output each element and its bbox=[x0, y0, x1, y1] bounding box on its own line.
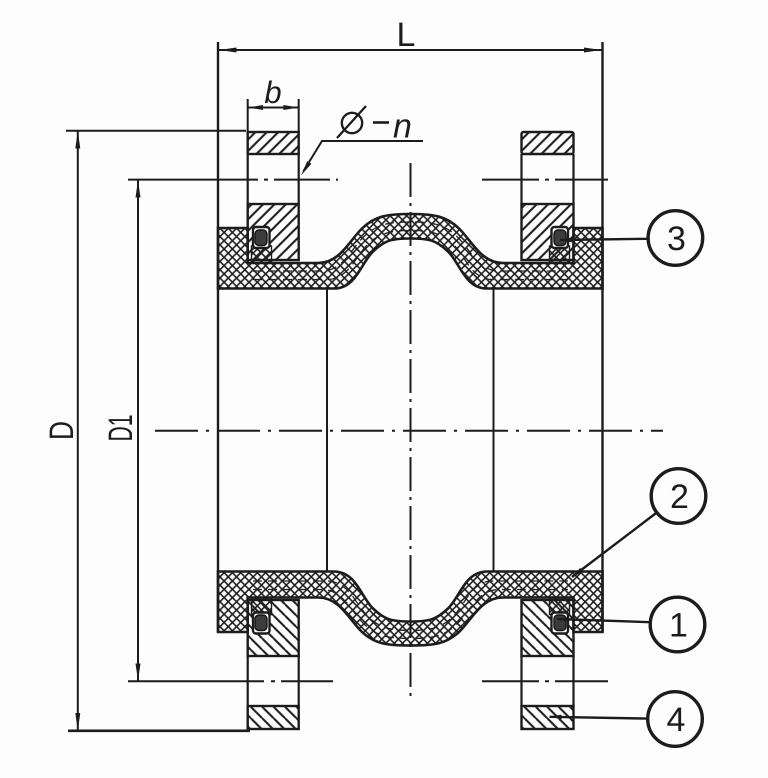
bore edge line right bbox=[493, 289, 495, 572]
svg-text:1: 1 bbox=[669, 607, 688, 645]
balloon 3 bbox=[648, 211, 703, 266]
dimension L arrow right bbox=[584, 48, 602, 53]
dimension L arrow left bbox=[219, 48, 237, 53]
phi-n dash bbox=[373, 121, 389, 124]
reinforcement ply dashed line lower 1 bbox=[253, 590, 568, 639]
rubber bellows lower half bbox=[218, 572, 603, 646]
svg-text:n: n bbox=[393, 108, 412, 146]
reinforcement ply dashed line upper 2 bbox=[253, 231, 568, 280]
bolt retainer recess UL bbox=[253, 227, 270, 248]
bolt hole centerline upper-right bbox=[482, 179, 608, 181]
dimension b extension lines bbox=[248, 99, 299, 132]
bolt hole centerline lower-right bbox=[482, 680, 608, 682]
balloon 2 leader bbox=[572, 513, 657, 578]
dimension D1 arrow top bbox=[136, 180, 141, 198]
phi-n leader line bbox=[304, 141, 424, 171]
flange LL outer ring section bbox=[248, 706, 299, 729]
flange UL inner ring section bbox=[248, 204, 299, 260]
svg-text:b: b bbox=[264, 75, 281, 110]
bolt head UR bbox=[554, 230, 566, 246]
dimension D top extension bbox=[66, 130, 246, 132]
rubber pocket UR bbox=[550, 246, 570, 263]
svg-text:3: 3 bbox=[667, 220, 686, 258]
reinforcement ply dashed line upper 1 bbox=[253, 222, 568, 271]
bolt retainer recess LR bbox=[552, 613, 569, 634]
left outer face vertical / L extension line bbox=[217, 42, 219, 632]
bolt retainer recess UR bbox=[552, 227, 569, 248]
svg-text:2: 2 bbox=[670, 478, 689, 516]
flange UR outer ring section bbox=[522, 132, 574, 154]
flange LL inner ring section bbox=[248, 600, 299, 656]
phi-n leader arrow bbox=[301, 161, 311, 175]
dimension D1 line bbox=[137, 180, 139, 681]
right outer face vertical / L extension line bbox=[601, 42, 603, 632]
horizontal centerline bbox=[155, 430, 663, 432]
balloon 4 leader bbox=[550, 717, 648, 719]
dimension L line bbox=[219, 49, 602, 51]
balloon 3 leader bbox=[560, 239, 648, 240]
phi-n diameter symbol bbox=[337, 106, 366, 138]
dimension b arrow right bbox=[283, 105, 298, 110]
flange side edges through bolt hole gaps bbox=[248, 154, 574, 706]
svg-text:D: D bbox=[43, 421, 81, 440]
bore edge line left bbox=[326, 289, 328, 572]
rubber pocket LR bbox=[550, 598, 570, 615]
balloon 1 bbox=[650, 597, 705, 652]
dimension b arrow left bbox=[248, 105, 263, 110]
bolt hole centerline upper-left / D1 top extension bbox=[128, 179, 258, 181]
flange UR inner ring section bbox=[522, 204, 574, 260]
bolt retainer recess LL bbox=[253, 613, 270, 634]
dimension b line bbox=[248, 107, 299, 109]
rubber bellows upper half (item 2 body) bbox=[218, 214, 603, 289]
balloon 4 bbox=[648, 692, 703, 747]
bolt hole centerline lower-left / D1 bottom extension bbox=[128, 680, 264, 682]
flange LR outer ring section bbox=[522, 706, 574, 729]
bolt head LL bbox=[255, 615, 267, 631]
svg-text:4: 4 bbox=[667, 701, 686, 739]
balloon 2 bbox=[651, 469, 706, 524]
dimension D bottom extension bbox=[68, 729, 250, 732]
dimension D line bbox=[77, 131, 79, 731]
reinforcement ply dashed line lower 2 bbox=[253, 581, 568, 631]
dimension D arrow top bbox=[75, 131, 80, 149]
rubber pocket LL bbox=[252, 598, 272, 615]
svg-text:D1: D1 bbox=[102, 415, 140, 442]
flange UL outer ring section bbox=[248, 132, 299, 154]
svg-text:L: L bbox=[397, 16, 416, 54]
vertical centerline bbox=[410, 163, 412, 702]
balloon 1 leader bbox=[557, 619, 650, 622]
dimension D arrow bottom bbox=[75, 713, 80, 731]
dimension D1 arrow bottom bbox=[136, 664, 141, 682]
bolt head LR bbox=[554, 615, 566, 631]
rubber pocket UL bbox=[252, 246, 272, 263]
bolt head UL bbox=[255, 230, 267, 246]
flange LR inner ring section bbox=[522, 600, 574, 656]
